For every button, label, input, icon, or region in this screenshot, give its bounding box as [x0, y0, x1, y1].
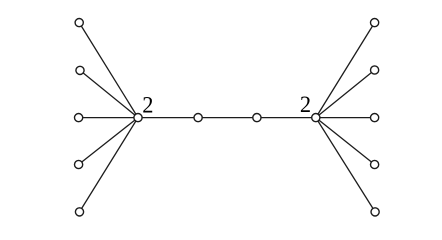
- svg-text:2: 2: [142, 93, 153, 119]
- svg-text:2: 2: [300, 92, 311, 118]
